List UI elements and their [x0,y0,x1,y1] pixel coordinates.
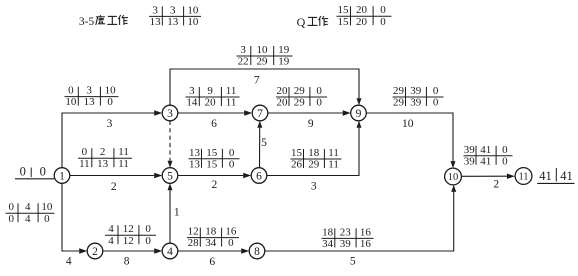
svg-text:20: 20 [277,97,289,109]
svg-text:0: 0 [9,213,15,225]
svg-text:11: 11 [118,146,129,158]
svg-text:3: 3 [170,4,176,16]
svg-text:29: 29 [393,85,405,97]
svg-text:12: 12 [188,226,199,238]
svg-text:11: 11 [79,158,90,170]
svg-text:0: 0 [433,85,439,97]
svg-text:0: 0 [502,155,508,167]
svg-text:16: 16 [360,238,372,250]
svg-text:2: 2 [111,181,117,193]
svg-text:2: 2 [212,179,218,191]
svg-text:8: 8 [124,255,130,267]
svg-text:0: 0 [20,165,26,179]
svg-text:0: 0 [229,158,235,170]
svg-text:10: 10 [65,96,77,108]
svg-text:0: 0 [145,223,151,235]
svg-text:3: 3 [107,118,113,130]
svg-text:3-5: 3-5 [79,16,95,28]
svg-text:11: 11 [226,85,237,97]
svg-text:0: 0 [380,16,386,28]
svg-text:41: 41 [560,169,573,183]
svg-text:29: 29 [257,56,269,68]
svg-text:8: 8 [254,246,260,258]
svg-text:41: 41 [480,155,491,167]
svg-text:14: 14 [186,97,198,109]
svg-text:11: 11 [328,159,339,171]
svg-text:39: 39 [464,144,476,156]
svg-text:0: 0 [380,4,386,16]
svg-text:29: 29 [294,85,306,97]
svg-text:2: 2 [100,146,106,158]
svg-text:20: 20 [277,85,289,97]
svg-text:0: 0 [9,201,15,213]
svg-text:13: 13 [150,16,162,28]
svg-text:29: 29 [393,97,405,109]
svg-text:5: 5 [167,170,173,182]
svg-text:3: 3 [189,85,195,97]
svg-text:19: 19 [278,44,290,56]
svg-text:13: 13 [97,158,109,170]
svg-text:6: 6 [256,170,262,182]
svg-text:39: 39 [340,238,352,250]
svg-text:10: 10 [41,201,53,213]
svg-text:0: 0 [145,235,151,247]
svg-text:9: 9 [356,108,362,120]
svg-text:10: 10 [448,172,459,183]
svg-text:13: 13 [189,147,201,159]
svg-text:29: 29 [294,97,306,109]
svg-text:Q: Q [297,15,306,29]
svg-text:13: 13 [167,16,179,28]
svg-text:41: 41 [480,144,491,156]
svg-text:15: 15 [291,147,303,159]
svg-text:0: 0 [44,213,50,225]
svg-text:0: 0 [316,85,322,97]
svg-text:12: 12 [123,235,134,247]
svg-text:0: 0 [433,97,439,109]
svg-text:10: 10 [402,118,414,130]
svg-text:0: 0 [316,97,322,109]
svg-text:6: 6 [209,256,215,268]
svg-text:15: 15 [338,4,350,16]
svg-text:23: 23 [340,226,352,238]
svg-text:4: 4 [108,235,114,247]
svg-text:9: 9 [308,118,314,130]
svg-text:2: 2 [493,179,499,191]
svg-text:10: 10 [187,16,199,28]
svg-text:11: 11 [118,158,129,170]
svg-text:39: 39 [410,97,422,109]
svg-text:0: 0 [82,146,88,158]
svg-text:4: 4 [25,213,31,225]
svg-text:29: 29 [308,159,320,171]
svg-text:16: 16 [360,226,372,238]
svg-text:0: 0 [68,85,74,97]
svg-text:15: 15 [338,16,350,28]
svg-text:34: 34 [205,237,217,249]
svg-text:5: 5 [261,137,267,149]
svg-text:41: 41 [539,169,552,183]
svg-text:20: 20 [205,97,217,109]
svg-text:11: 11 [328,147,339,159]
svg-text:1: 1 [59,170,65,182]
svg-text:39: 39 [464,155,476,167]
svg-text:7: 7 [254,75,260,87]
svg-text:10: 10 [187,4,199,16]
svg-text:3: 3 [86,85,92,97]
svg-text:0: 0 [502,144,508,156]
svg-text:0: 0 [228,237,234,249]
svg-text:0: 0 [107,96,113,108]
svg-text:13: 13 [189,158,201,170]
svg-text:18: 18 [322,226,334,238]
svg-text:4: 4 [108,223,114,235]
svg-text:22: 22 [238,56,249,68]
svg-text:11: 11 [226,97,237,109]
svg-text:10: 10 [257,44,269,56]
svg-text:13: 13 [84,96,96,108]
svg-text:4: 4 [167,246,173,258]
svg-text:28: 28 [188,237,200,249]
svg-text:3: 3 [152,4,158,16]
svg-text:4: 4 [66,256,72,268]
svg-text:9: 9 [207,85,213,97]
svg-text:3: 3 [167,108,173,120]
svg-text:4: 4 [25,201,31,213]
svg-text:39: 39 [410,85,422,97]
svg-text:3: 3 [311,181,317,193]
svg-text:20: 20 [356,16,368,28]
svg-text:6: 6 [211,118,217,130]
svg-text:11: 11 [518,172,528,183]
svg-text:0: 0 [40,165,46,179]
svg-text:18: 18 [205,226,217,238]
svg-text:34: 34 [322,238,334,250]
svg-text:18: 18 [308,147,320,159]
svg-text:7: 7 [257,108,263,120]
svg-text:20: 20 [356,4,368,16]
svg-text:2: 2 [92,246,98,258]
svg-text:15: 15 [206,147,218,159]
svg-text:0: 0 [229,147,235,159]
svg-text:3: 3 [240,44,246,56]
svg-text:19: 19 [278,56,290,68]
svg-text:26: 26 [291,159,303,171]
svg-text:10: 10 [105,85,117,97]
svg-text:5: 5 [350,256,356,268]
svg-text:12: 12 [123,223,134,235]
svg-text:15: 15 [206,158,218,170]
svg-text:1: 1 [174,207,180,219]
svg-text:16: 16 [225,226,237,238]
